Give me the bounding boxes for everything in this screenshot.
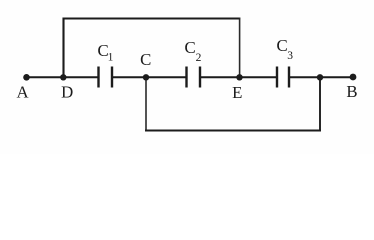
svg-text:C: C (277, 36, 288, 55)
svg-text:A: A (16, 83, 28, 102)
junction node (317, 74, 323, 80)
wire riser D up (62, 18, 64, 77)
svg-text:2: 2 (196, 52, 202, 64)
wire top horizontal D to E (63, 18, 241, 20)
wire C1 to C2 (112, 76, 187, 78)
wire riser J down (319, 78, 321, 132)
wire C2 to C3 (200, 76, 277, 78)
svg-text:C: C (185, 38, 196, 57)
svg-text:C: C (140, 50, 151, 69)
svg-text:E: E (232, 83, 242, 102)
node B (346, 74, 357, 101)
wire A to C1 (26, 76, 99, 78)
capacitor C1 (98, 41, 114, 88)
svg-text:B: B (346, 82, 357, 101)
wire C3 to B (289, 76, 353, 78)
wire bottom horizontal C to J (145, 129, 321, 131)
wire riser E up (239, 18, 241, 77)
node A (16, 74, 29, 102)
node C (140, 50, 151, 81)
wire riser C down (145, 78, 147, 132)
svg-text:3: 3 (287, 50, 293, 62)
capacitor C2 (185, 38, 202, 88)
node E (232, 74, 243, 102)
svg-text:1: 1 (108, 52, 114, 64)
node D (60, 74, 73, 101)
capacitor C3 (277, 36, 294, 88)
svg-text:D: D (61, 83, 73, 102)
